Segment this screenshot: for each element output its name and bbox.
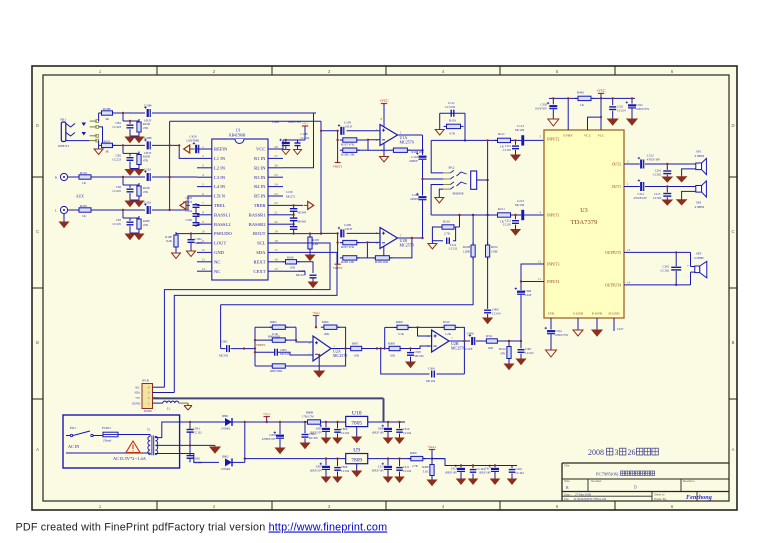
ground under C112 — [511, 155, 520, 161]
svg-text:47K: 47K — [143, 223, 149, 227]
svg-text:PW1: PW1 — [70, 426, 77, 430]
capacitor C324 — [550, 318, 552, 330]
ground under SP1 — [677, 177, 687, 182]
svg-text:U1: U1 — [236, 129, 241, 133]
op-amp U1A — [380, 125, 398, 146]
transformer T1 — [147, 428, 158, 456]
svg-text:24: 24 — [274, 182, 278, 186]
svg-text:AC IN: AC IN — [68, 444, 79, 449]
svg-text:100UF/25V: 100UF/25V — [636, 108, 649, 111]
wire Zobel right — [464, 113, 466, 140]
svg-text:R209 20K: R209 20K — [375, 260, 389, 264]
ground under C404 — [483, 318, 492, 324]
svg-text:BASSL1: BASSL1 — [214, 212, 231, 217]
ground under C428 open — [282, 150, 290, 155]
svg-text:JP1B: JP1B — [142, 379, 149, 383]
svg-text:TREL: TREL — [214, 203, 226, 208]
svg-text:R909: R909 — [396, 320, 403, 324]
title main text — [596, 471, 655, 476]
capacitor C209 — [321, 232, 339, 234]
capacitor C110 — [422, 135, 424, 155]
ground under AUX L — [63, 214, 65, 222]
svg-text:3: 3 — [615, 448, 619, 457]
capacitor CB2 — [127, 158, 134, 161]
svg-text:4 OHM: 4 OHM — [695, 205, 705, 209]
resistor R201 — [99, 143, 116, 147]
svg-text:INPUT1: INPUT1 — [547, 214, 560, 218]
wire loop top — [221, 304, 474, 306]
svg-text:47K: 47K — [500, 352, 506, 356]
capacitor C210 — [422, 179, 424, 196]
svg-text:C312: C312 — [647, 154, 654, 158]
svg-text:File:: File: — [564, 497, 570, 501]
capacitor C801 — [187, 430, 194, 433]
wire secondary bottom — [155, 454, 219, 463]
svg-text:R10B: R10B — [463, 245, 470, 249]
ground under C12B open — [294, 150, 302, 155]
svg-text:C803: C803 — [269, 433, 276, 437]
svg-text:MC222: MC222 — [296, 273, 306, 277]
resistor R903 — [269, 364, 288, 368]
svg-text:R4 IN: R4 IN — [254, 184, 266, 189]
svg-text:14: 14 — [201, 267, 205, 271]
svg-text:C202: C202 — [144, 201, 151, 205]
inductor L1 — [159, 402, 163, 404]
power text VREF2 — [335, 263, 341, 265]
ground under U10 — [356, 427, 358, 437]
svg-text:10K: 10K — [354, 353, 360, 357]
wire VCC stubs — [588, 98, 602, 130]
svg-text:CEXT: CEXT — [254, 269, 266, 274]
svg-text:GND: GND — [214, 250, 225, 255]
svg-text:18: 18 — [274, 239, 278, 243]
wire diode join vertical — [232, 461, 245, 463]
svg-text:R311: R311 — [486, 334, 493, 338]
svg-text:VREF1: VREF1 — [333, 164, 343, 168]
svg-text:10UF: 10UF — [345, 124, 352, 128]
wire D-GND stub — [613, 318, 615, 331]
resistor R310 — [441, 325, 458, 329]
svg-text:22: 22 — [274, 201, 278, 205]
capacitor C12B — [295, 143, 301, 146]
ground arrow DGND — [187, 403, 189, 405]
svg-text:REXT: REXT — [254, 259, 266, 264]
resistor R312 — [507, 344, 511, 362]
ground under U1A open — [383, 143, 385, 157]
svg-text:R310: R310 — [443, 320, 450, 324]
wire U2B bottom loop — [381, 349, 430, 375]
power port above C428 — [302, 122, 308, 127]
inner border — [43, 75, 729, 501]
ground at R210 open — [431, 241, 433, 244]
resistor R10F — [174, 232, 178, 250]
wire U1A output drop — [422, 137, 424, 151]
svg-text:U3: U3 — [580, 207, 588, 214]
svg-text:DC356: DC356 — [309, 436, 318, 440]
svg-text:INPUT1: INPUT1 — [58, 144, 70, 148]
svg-text:26: 26 — [628, 448, 636, 457]
svg-text:20: 20 — [274, 220, 278, 224]
wire U1B output — [398, 237, 423, 239]
capacitor C416 — [511, 466, 513, 469]
svg-text:INPUT2: INPUT2 — [547, 138, 560, 142]
ground near SK1 open — [98, 141, 100, 149]
svg-text:10UF: 10UF — [345, 227, 352, 231]
svg-text:12: 12 — [538, 260, 542, 264]
capacitor C808 — [337, 459, 339, 467]
svg-text:R905: R905 — [270, 320, 277, 324]
svg-text:BASSR2: BASSR2 — [249, 222, 267, 227]
capacitor C413 — [460, 466, 462, 468]
svg-text:150K: 150K — [491, 250, 499, 254]
capacitor C804 — [304, 422, 306, 433]
svg-text:MC182: MC182 — [415, 354, 425, 358]
power port at U2A — [312, 311, 320, 316]
svg-text:CC104: CC104 — [341, 431, 350, 435]
svg-text:A: A — [732, 447, 735, 452]
svg-text:Revision: Revision — [683, 479, 695, 483]
ground under C809 — [384, 438, 393, 443]
wire SP2 return to ground — [682, 191, 696, 199]
svg-text:DGND: DGND — [144, 410, 152, 413]
wire secondary mid to ground — [155, 444, 215, 446]
svg-text:CC104: CC104 — [403, 469, 412, 473]
capacitor C805 — [325, 422, 327, 427]
capacitor C810 — [399, 422, 401, 428]
resistor R20D — [137, 152, 141, 168]
wire R311 to TDA inputs — [497, 340, 521, 342]
svg-text:S-GND: S-GND — [573, 312, 584, 316]
resistor R109 — [340, 148, 360, 152]
IC U1 KB41590B — [197, 129, 283, 281]
resistor R907 — [348, 346, 365, 350]
wire SCL to JP1B — [164, 243, 330, 387]
capacitor C312 — [638, 157, 645, 169]
svg-text:L5I N: L5I N — [214, 194, 226, 199]
svg-text:11: 11 — [201, 239, 205, 243]
capacitor C10B — [144, 106, 151, 117]
sheet background — [32, 66, 737, 510]
svg-text:L3 IN: L3 IN — [214, 175, 226, 180]
svg-text:AUX: AUX — [76, 195, 84, 199]
svg-text:R907: R907 — [352, 341, 359, 345]
svg-text:MC104: MC104 — [426, 379, 436, 383]
capacitor C212 loop — [447, 238, 450, 245]
wire SP1 return to ground — [682, 169, 696, 177]
svg-text:C809: C809 — [378, 427, 385, 431]
capacitor C109 — [321, 130, 339, 132]
svg-text:REFIN: REFIN — [214, 147, 228, 152]
svg-text:16: 16 — [274, 258, 278, 262]
wire U9 output row — [368, 458, 445, 460]
svg-text:2.2uF: 2.2uF — [525, 293, 532, 297]
svg-text:1.28K: 1.28K — [463, 250, 471, 254]
svg-text:4 OHM: 4 OHM — [694, 256, 704, 260]
headphone jack SK2 — [443, 166, 476, 196]
capacitor C213 — [521, 210, 524, 220]
svg-text:Size: Size — [564, 479, 570, 483]
svg-text:R210: R210 — [443, 220, 450, 224]
svg-text:C205: C205 — [185, 218, 192, 222]
svg-text:R5 IN: R5 IN — [254, 194, 266, 199]
svg-text:CC104: CC104 — [617, 109, 626, 113]
wire R201 to C20B — [112, 144, 145, 146]
svg-text:T1: T1 — [147, 428, 151, 432]
capacitor CB1 — [127, 125, 134, 128]
svg-text:R10B 15K: R10B 15K — [341, 153, 355, 157]
regulator U10 7805 — [346, 416, 368, 426]
wire R10B to loop — [472, 257, 474, 305]
wire final bank — [432, 459, 517, 466]
svg-text:-: - — [688, 275, 689, 279]
resistor R10F2 20K — [390, 148, 410, 152]
svg-text:3K: 3K — [105, 117, 110, 121]
wire R210 loop — [432, 227, 443, 241]
svg-text:SVR: SVR — [548, 312, 555, 316]
svg-text:2.7K: 2.7K — [444, 232, 451, 236]
wire C202 to L5IN pin — [152, 196, 197, 210]
svg-text:TRER: TRER — [254, 203, 267, 208]
svg-text:23: 23 — [274, 192, 278, 196]
svg-text:Date:: Date: — [564, 492, 571, 496]
wire OUTPUT4 — [624, 284, 691, 286]
svg-text:CC104: CC104 — [403, 431, 412, 435]
power supply box — [63, 415, 180, 468]
svg-text:D802: D802 — [222, 454, 229, 458]
svg-text:19: 19 — [274, 229, 278, 233]
svg-text:R408: R408 — [422, 465, 429, 469]
svg-text:CC102: CC102 — [525, 351, 534, 355]
capacitor C83 — [127, 222, 134, 225]
svg-text:SP1: SP1 — [696, 150, 702, 154]
ground under C413 — [457, 479, 466, 484]
svg-text:MC??: MC?? — [195, 241, 203, 245]
ground under C216 — [663, 177, 673, 182]
wire JP1B pin4 — [159, 386, 165, 388]
resistor R409 — [408, 456, 426, 460]
svg-text:L: L — [55, 209, 57, 213]
ground under R312 — [508, 359, 510, 365]
svg-text:100UF/16V: 100UF/16V — [479, 472, 492, 475]
svg-text:13: 13 — [627, 248, 631, 252]
svg-text:228UF: 228UF — [409, 159, 418, 163]
capacitor C102 — [144, 170, 151, 181]
IC U3 TDA7379 — [538, 130, 631, 318]
svg-text:47K: 47K — [143, 159, 149, 163]
ground under C321 — [608, 119, 618, 125]
resistor R311 — [483, 339, 500, 343]
wire C10B to R1IN bus — [152, 112, 316, 114]
capacitor C307 — [520, 341, 522, 348]
svg-text:C413: C413 — [451, 467, 458, 471]
svg-text:C: C — [731, 229, 734, 234]
svg-text:R3 IN: R3 IN — [254, 175, 266, 180]
ground under C320 open — [548, 119, 559, 126]
svg-text:7809: 7809 — [351, 458, 362, 464]
svg-text:MC106: MC106 — [515, 203, 525, 207]
svg-text:C902: C902 — [221, 340, 228, 344]
svg-text:+VA1: +VA1 — [312, 311, 320, 315]
speaker SP1 — [696, 158, 707, 174]
connector SK1 — [58, 118, 99, 148]
ground under C806 — [333, 438, 342, 443]
capacitor C803 — [279, 422, 281, 434]
wire loop left vertical — [220, 305, 222, 349]
capacitor C305 — [675, 252, 677, 266]
svg-text:100UF/25V: 100UF/25V — [310, 432, 323, 435]
wire SK1 ring to R201 — [99, 127, 103, 145]
svg-text:MC2570: MC2570 — [333, 353, 347, 358]
capacitor C420 — [193, 142, 200, 153]
ground S-GND open — [577, 318, 579, 330]
capacitor C320 — [552, 98, 554, 104]
svg-text:L1 IN: L1 IN — [214, 156, 226, 161]
svg-text:100UF/16V: 100UF/16V — [445, 472, 458, 475]
svg-text:20K: 20K — [324, 332, 330, 336]
svg-text:1: 1 — [202, 145, 204, 149]
svg-text:D: D — [36, 123, 39, 128]
ground under Zobel open — [439, 126, 441, 129]
resistor R904 — [269, 338, 288, 342]
capacitor C308 — [520, 282, 522, 291]
capacitor C212b — [515, 215, 517, 219]
resistor R408 — [430, 462, 434, 479]
resistor R308 — [386, 346, 403, 350]
resistor R906 — [321, 325, 340, 329]
wire jack c4 to ground — [439, 189, 443, 197]
svg-text:(1UF50B): (1UF50B) — [187, 139, 199, 143]
svg-text:Sheet of: Sheet of — [654, 492, 665, 496]
svg-text:BASSR1: BASSR1 — [249, 212, 267, 217]
wire U10 output row — [368, 421, 405, 423]
wire ST-BY stub — [567, 98, 569, 130]
svg-text:C20B: C20B — [144, 136, 151, 140]
svg-text:CC223: CC223 — [112, 125, 121, 129]
svg-text:21: 21 — [274, 211, 278, 215]
svg-text:+VCC: +VCC — [379, 99, 389, 103]
svg-text:C324: C324 — [555, 329, 562, 333]
svg-text:SK1: SK1 — [60, 118, 66, 122]
svg-text:R103: R103 — [449, 119, 456, 123]
svg-text:SP2: SP2 — [696, 200, 702, 204]
svg-text:MC403: MC403 — [298, 221, 307, 224]
svg-text:4700UF/25V: 4700UF/25V — [262, 438, 276, 441]
op-amp U1B — [380, 228, 398, 249]
ground P-GND — [596, 318, 598, 330]
svg-text:KB41590B: KB41590B — [229, 134, 246, 138]
svg-text:3K: 3K — [105, 149, 110, 153]
svg-text:INPUT4: INPUT4 — [547, 280, 560, 284]
power port arrow at TREL — [180, 201, 190, 209]
svg-text:470UF/16V: 470UF/16V — [647, 159, 660, 162]
svg-text:R102: R102 — [80, 171, 87, 175]
wire jack c1 feed — [431, 140, 443, 173]
svg-text:1K: 1K — [580, 103, 585, 107]
svg-text:20K: 20K — [488, 346, 494, 350]
svg-text:4 OHM: 4 OHM — [695, 154, 705, 158]
svg-text:SCL: SCL — [135, 386, 140, 389]
svg-text:R308: R308 — [388, 341, 395, 345]
capacitor C202 — [144, 203, 151, 214]
ground under jack open — [435, 198, 444, 204]
svg-text:6: 6 — [202, 192, 204, 196]
svg-text:R201: R201 — [104, 139, 111, 143]
svg-text:C314: C314 — [638, 192, 645, 196]
svg-text:ST-BY: ST-BY — [563, 134, 573, 138]
capacitor C404 — [484, 310, 491, 313]
wire OUT2 — [624, 163, 640, 165]
svg-text:R106: R106 — [287, 256, 294, 260]
wire U1A output — [398, 134, 423, 136]
svg-text:R904 82K: R904 82K — [268, 334, 281, 338]
svg-text:R202: R202 — [80, 204, 87, 208]
wire REXT CEXT — [298, 262, 314, 273]
svg-text:100UF/16V: 100UF/16V — [288, 121, 301, 124]
svg-text:Drawn By:: Drawn By: — [654, 497, 667, 501]
resistor R405 — [575, 96, 594, 100]
svg-text:A: A — [36, 447, 39, 452]
capacitor C807 — [325, 459, 327, 466]
wire C20B drop to L1IN — [179, 145, 197, 158]
svg-text:2: 2 — [202, 154, 204, 158]
power port +Vcc — [263, 412, 271, 417]
resistor R211 — [495, 213, 514, 217]
wire R310 to output — [455, 327, 464, 341]
svg-text:L2 IN: L2 IN — [214, 165, 226, 170]
svg-text:15: 15 — [274, 267, 278, 271]
svg-text:SDA: SDA — [135, 392, 140, 395]
svg-text:R208 14K: R208 14K — [341, 260, 355, 264]
capacitor stack C130 — [283, 204, 303, 206]
svg-text:MC2570: MC2570 — [400, 140, 414, 145]
wire JP1B +5V rail — [153, 397, 384, 399]
capacitor C314 — [638, 179, 645, 191]
wire +5V drop to U10 output — [383, 398, 385, 422]
ground under C803 — [276, 448, 285, 454]
wire SDA to JP1B — [174, 252, 337, 392]
svg-text:2008: 2008 — [588, 448, 604, 457]
wire U2A input bus — [254, 327, 256, 366]
capacitor C10G — [188, 240, 195, 243]
ground under R105 — [309, 249, 311, 255]
svg-text:3: 3 — [202, 164, 204, 168]
svg-text:U9: U9 — [353, 448, 360, 454]
capacitor C902 — [221, 348, 226, 350]
svg-text:DGND: DGND — [132, 402, 140, 405]
ground under C212b — [511, 230, 520, 236]
svg-text:R207 47K: R207 47K — [341, 245, 355, 249]
wire U9 input row — [245, 458, 346, 460]
svg-text:470UF/25V: 470UF/25V — [555, 334, 568, 337]
svg-text:OUTPUT4: OUTPUT4 — [605, 283, 621, 287]
svg-text:CC132: CC132 — [194, 460, 203, 464]
ground under C107 — [309, 282, 318, 288]
svg-text:100UF/16V: 100UF/16V — [372, 432, 385, 435]
resistor R905 — [269, 325, 288, 329]
ground under C805 — [322, 438, 331, 443]
svg-text:CC302: CC302 — [653, 196, 662, 200]
wire JP1B pin3 — [159, 392, 175, 394]
capacitor C906 — [469, 334, 476, 345]
svg-text:7805: 7805 — [351, 420, 362, 426]
svg-text:17R 0.7W: 17R 0.7W — [302, 414, 314, 418]
svg-text:4.7K: 4.7K — [449, 132, 456, 136]
diode D802 — [225, 458, 232, 466]
wire secondary top rail — [192, 421, 346, 423]
svg-text:27-Mar-2008: 27-Mar-2008 — [575, 492, 591, 496]
ground under C10G — [187, 251, 196, 257]
resistor R80B — [305, 420, 324, 424]
